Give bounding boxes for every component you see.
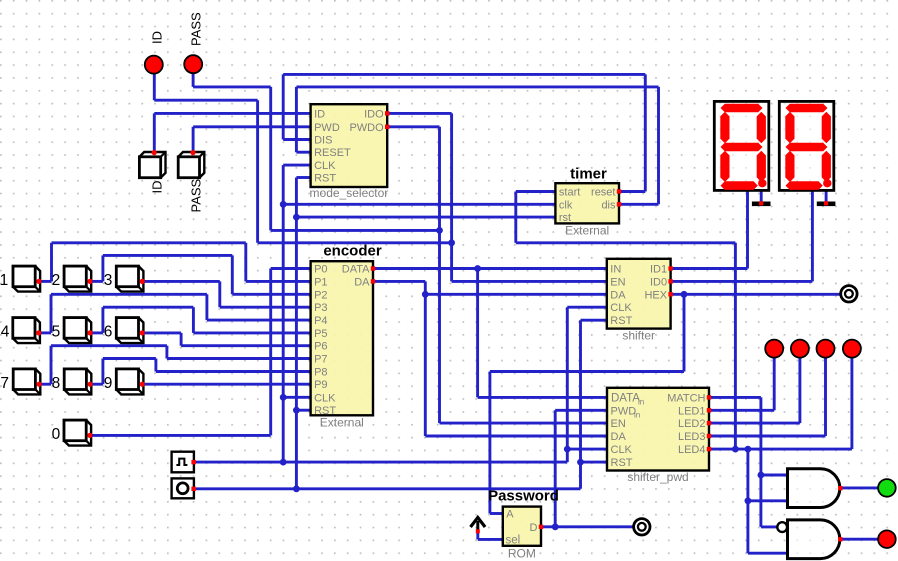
- svg-text:LED1: LED1: [678, 405, 706, 417]
- svg-text:5: 5: [52, 324, 61, 341]
- svg-text:EN: EN: [610, 276, 625, 288]
- svg-text:2: 2: [52, 272, 61, 289]
- svg-text:ROM: ROM: [508, 547, 536, 561]
- svg-text:DA: DA: [354, 276, 370, 288]
- svg-text:IN: IN: [610, 264, 621, 276]
- svg-text:CLK: CLK: [610, 302, 632, 314]
- svg-text:timer: timer: [570, 166, 607, 183]
- svg-text:P0: P0: [314, 264, 327, 276]
- svg-text:DA: DA: [611, 431, 627, 443]
- svg-text:LED4: LED4: [678, 444, 706, 456]
- svg-text:reset: reset: [591, 187, 615, 199]
- svg-text:3: 3: [104, 272, 113, 289]
- svg-text:in: in: [634, 411, 640, 420]
- svg-text:6: 6: [104, 324, 113, 341]
- svg-text:encoder: encoder: [323, 243, 382, 260]
- svg-text:D: D: [530, 522, 538, 534]
- svg-text:MATCH: MATCH: [667, 392, 705, 404]
- svg-text:0: 0: [52, 426, 61, 443]
- svg-text:ID0: ID0: [650, 276, 667, 288]
- svg-text:PWDO: PWDO: [349, 122, 384, 134]
- svg-text:RESET: RESET: [314, 147, 351, 159]
- svg-text:LED2: LED2: [678, 418, 706, 430]
- svg-text:P9: P9: [314, 379, 327, 391]
- svg-text:sel: sel: [506, 535, 521, 547]
- svg-text:P3: P3: [314, 302, 327, 314]
- svg-text:DIS: DIS: [314, 135, 332, 147]
- svg-text:A: A: [506, 509, 514, 521]
- svg-text:P8: P8: [314, 367, 327, 379]
- svg-text:CLK: CLK: [314, 160, 336, 172]
- svg-text:ID1: ID1: [650, 264, 667, 276]
- svg-text:CLK: CLK: [611, 444, 633, 456]
- svg-text:PWD: PWD: [314, 122, 340, 134]
- svg-text:8: 8: [52, 375, 61, 392]
- svg-text:External: External: [320, 416, 364, 430]
- svg-text:P4: P4: [314, 315, 327, 327]
- svg-text:IDO: IDO: [364, 108, 384, 120]
- svg-text:P1: P1: [314, 276, 327, 288]
- svg-text:RST: RST: [314, 173, 336, 185]
- svg-text:DATA: DATA: [342, 264, 370, 276]
- svg-text:EN: EN: [611, 418, 626, 430]
- svg-text:1: 1: [0, 272, 8, 289]
- svg-text:shifter: shifter: [622, 329, 655, 343]
- svg-text:P6: P6: [314, 341, 327, 353]
- svg-text:ID: ID: [314, 108, 325, 120]
- svg-text:PWD: PWD: [611, 405, 637, 417]
- svg-text:CLK: CLK: [314, 392, 336, 404]
- svg-text:ID: ID: [150, 31, 165, 44]
- svg-text:RST: RST: [610, 315, 632, 327]
- svg-text:start: start: [559, 187, 580, 199]
- svg-text:Password: Password: [488, 487, 559, 504]
- svg-text:dis: dis: [601, 199, 616, 211]
- svg-text:clk: clk: [559, 199, 573, 211]
- svg-text:HEX: HEX: [644, 289, 667, 301]
- svg-text:rst: rst: [559, 212, 571, 224]
- svg-text:P2: P2: [314, 289, 327, 301]
- svg-text:PASS: PASS: [189, 12, 204, 46]
- svg-text:DA: DA: [610, 289, 626, 301]
- svg-text:LED3: LED3: [678, 431, 706, 443]
- svg-text:RST: RST: [611, 457, 633, 469]
- svg-text:DATA: DATA: [611, 393, 640, 405]
- svg-text:in: in: [638, 398, 644, 407]
- svg-text:External: External: [565, 224, 609, 238]
- svg-text:P5: P5: [314, 328, 327, 340]
- svg-text:shifter_pwd: shifter_pwd: [627, 470, 688, 484]
- svg-text:mode_selector: mode_selector: [310, 186, 389, 200]
- svg-text:7: 7: [0, 375, 9, 392]
- svg-text:ID: ID: [150, 181, 165, 194]
- svg-text:P7: P7: [314, 354, 327, 366]
- svg-text:9: 9: [104, 375, 113, 392]
- svg-text:4: 4: [1, 324, 10, 341]
- svg-text:PASS: PASS: [189, 178, 204, 212]
